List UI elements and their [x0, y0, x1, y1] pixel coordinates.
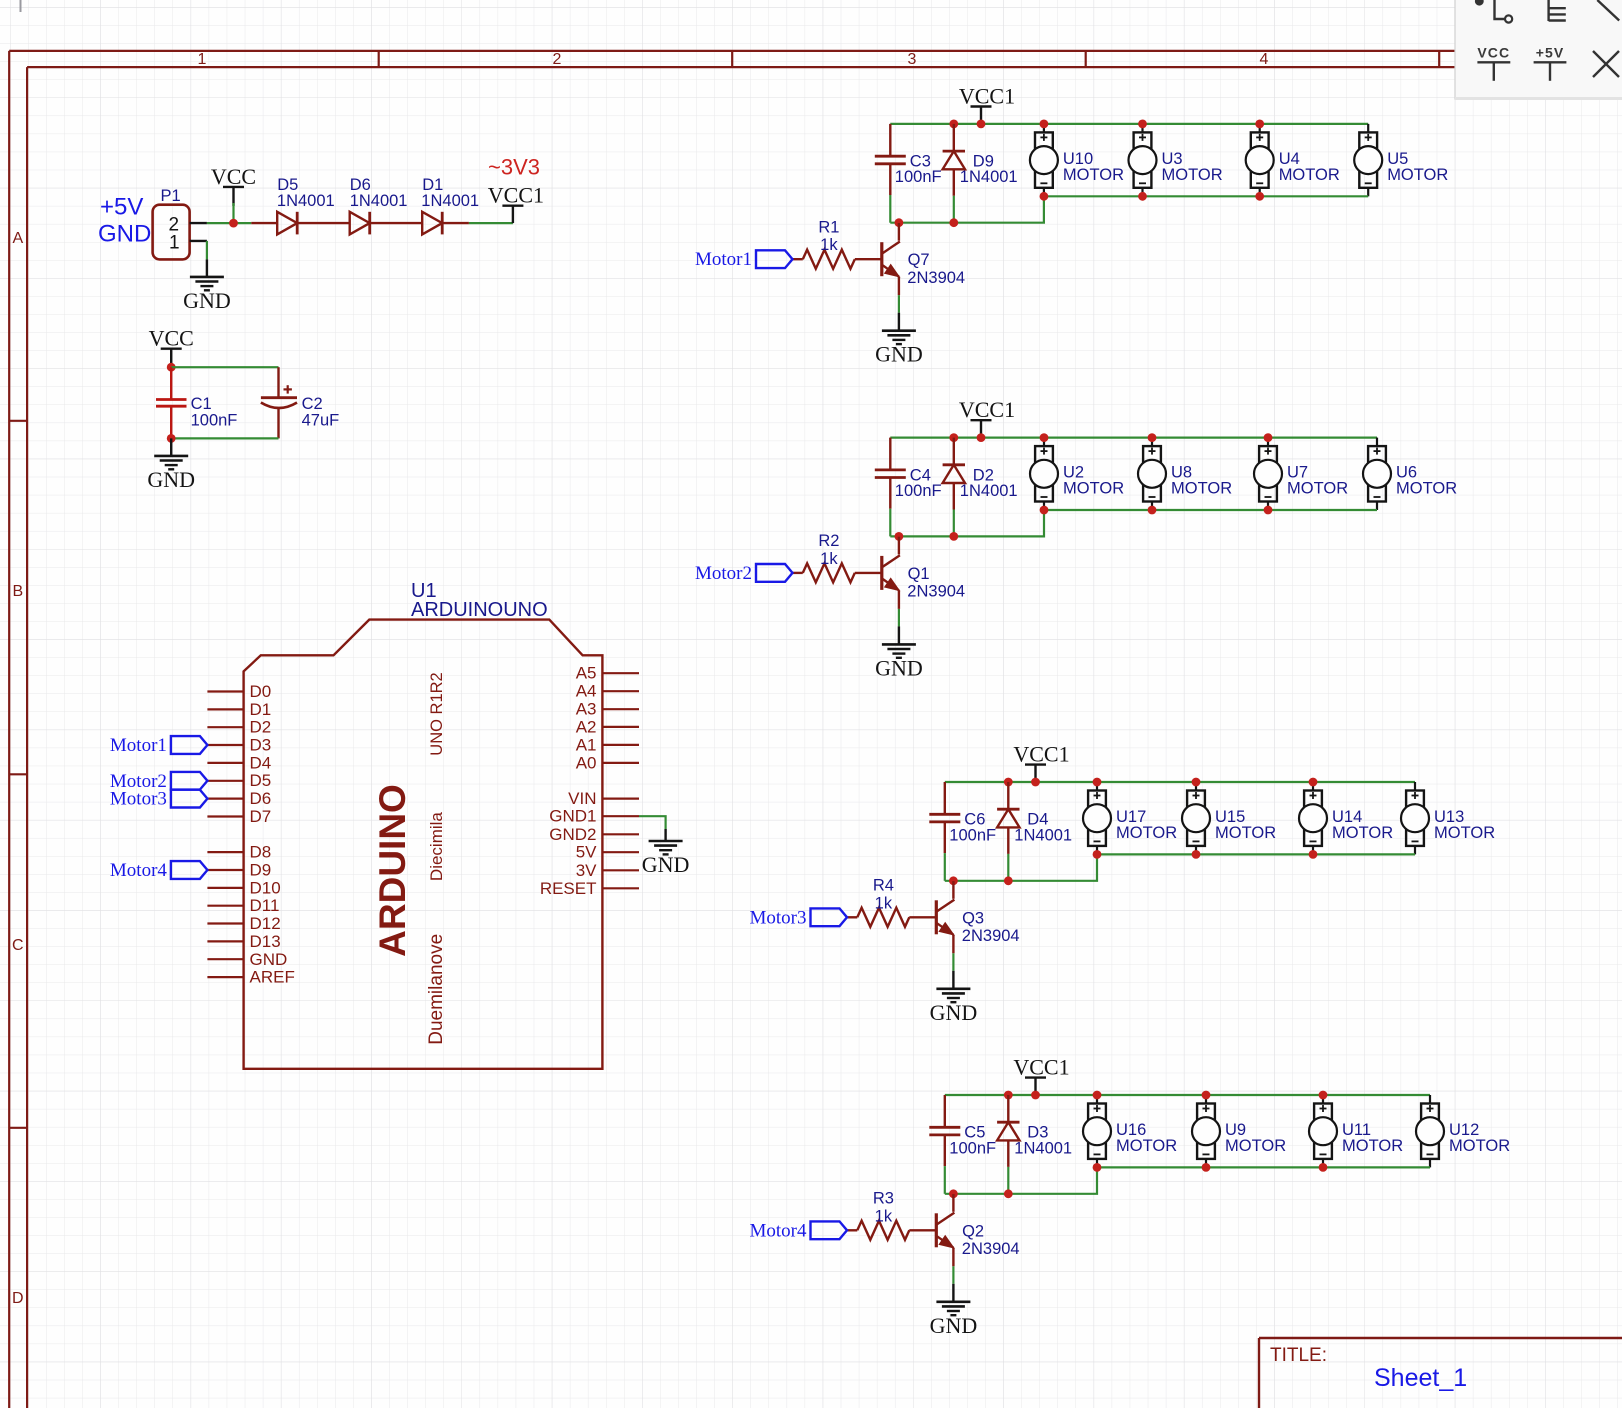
transistor Q7 [882, 223, 965, 295]
svg-text:GND1: GND1 [549, 807, 596, 826]
pin AREF [207, 968, 294, 987]
svg-text:Motor3: Motor3 [110, 789, 167, 810]
pin VIN [568, 789, 639, 808]
svg-text:MOTOR: MOTOR [1449, 1137, 1510, 1155]
svg-text:MOTOR: MOTOR [1387, 166, 1448, 184]
svg-text:2N3904: 2N3904 [907, 583, 965, 601]
motor U9 [1192, 1095, 1286, 1167]
svg-text:VCC: VCC [1477, 45, 1510, 61]
capacitor C5 [929, 1095, 996, 1194]
svg-text:RESET: RESET [540, 879, 597, 898]
svg-text:1N4001: 1N4001 [350, 192, 408, 210]
svg-text:1k: 1k [820, 236, 838, 254]
svg-text:Duemilanove: Duemilanove [426, 934, 447, 1045]
svg-text:MOTOR: MOTOR [1215, 824, 1276, 842]
pin 3V [576, 861, 639, 880]
motor U17 [1083, 782, 1177, 854]
junction [1319, 1091, 1328, 1100]
svg-text:A5: A5 [576, 664, 597, 683]
svg-text:D6: D6 [250, 789, 272, 808]
junction [167, 363, 176, 372]
svg-text:A4: A4 [576, 682, 597, 701]
connector P1 [153, 187, 207, 259]
pin D7 [207, 807, 271, 826]
pin A5 [576, 664, 639, 683]
svg-text:VCC1: VCC1 [1013, 1055, 1069, 1080]
net port Motor2 [695, 563, 793, 584]
capacitor C1 [156, 367, 237, 438]
svg-text:GND: GND [642, 852, 690, 877]
wire motor return rail [1097, 1166, 1430, 1168]
svg-text:D: D [12, 1290, 24, 1307]
frame row labels [12, 230, 24, 1307]
svg-text:2N3904: 2N3904 [962, 1240, 1020, 1258]
ground [147, 438, 195, 492]
svg-text:100nF: 100nF [895, 168, 942, 186]
junction [1148, 506, 1157, 515]
power flag VCC [211, 164, 256, 206]
pin A2 [576, 717, 639, 736]
pin A3 [576, 700, 639, 719]
svg-text:MOTOR: MOTOR [1396, 480, 1457, 498]
wire to VCC1 [469, 222, 513, 224]
junction [949, 120, 958, 129]
pin D6 [207, 789, 271, 808]
svg-text:VIN: VIN [568, 789, 596, 808]
toolbar icon bus entry [1549, 0, 1566, 21]
svg-text:1k: 1k [875, 894, 893, 912]
wire emitter to ground [952, 1266, 954, 1284]
svg-text:R3: R3 [873, 1190, 894, 1208]
diode D9 [943, 124, 1018, 223]
pin D1 [207, 700, 271, 719]
motor U10 [1030, 124, 1124, 196]
ground [930, 971, 978, 1025]
resistor R4 [847, 877, 936, 927]
svg-text:VCC1: VCC1 [959, 84, 1015, 109]
title block [1259, 1338, 1622, 1408]
junction [1255, 192, 1264, 201]
pin D10 [207, 878, 280, 897]
toolbar icon net port [1475, 0, 1512, 23]
diode D5 [251, 176, 334, 235]
svg-text:D9: D9 [250, 861, 272, 880]
svg-text:MOTOR: MOTOR [1063, 166, 1124, 184]
power flag VCC1 [959, 397, 1015, 437]
svg-text:MOTOR: MOTOR [1332, 824, 1393, 842]
net port Motor4 [750, 1220, 848, 1241]
motor U7 [1254, 438, 1348, 510]
wire riser [890, 196, 1044, 222]
svg-text:MOTOR: MOTOR [1434, 824, 1495, 842]
wire VCC1 bus (Motor3 block) [945, 781, 1415, 783]
ground [183, 259, 231, 313]
svg-text:3V: 3V [576, 861, 597, 880]
power flag VCC1 [1013, 742, 1069, 782]
svg-text:GND: GND [183, 288, 231, 313]
svg-text:A2: A2 [576, 717, 597, 736]
svg-text:MOTOR: MOTOR [1225, 1137, 1286, 1155]
junction [1093, 1091, 1102, 1100]
wire bottom [171, 437, 278, 439]
power flag VCC1 [959, 84, 1015, 124]
junction [1255, 120, 1264, 129]
power flag VCC [149, 326, 194, 364]
wire P1 pin1 to ground [206, 241, 208, 260]
diode D1 [369, 176, 479, 235]
pin RESET [540, 879, 639, 898]
junction [1040, 506, 1049, 515]
net port Motor2 [110, 771, 208, 792]
motor U13 [1401, 782, 1495, 854]
svg-text:GND: GND [930, 1000, 978, 1025]
svg-text:+5V: +5V [100, 194, 143, 221]
svg-text:D12: D12 [250, 914, 281, 933]
svg-text:3: 3 [908, 51, 917, 68]
junction [1040, 192, 1049, 201]
svg-text:MOTOR: MOTOR [1342, 1137, 1403, 1155]
svg-text:Motor4: Motor4 [750, 1220, 808, 1241]
wire P1 pin2 to node [207, 222, 251, 224]
junction [1093, 1163, 1102, 1172]
transistor Q1 [882, 537, 965, 609]
svg-text:1N4001: 1N4001 [960, 482, 1018, 500]
ground [642, 829, 690, 877]
svg-text:100nF: 100nF [895, 482, 942, 500]
svg-text:1N4001: 1N4001 [960, 168, 1018, 186]
svg-text:MOTOR: MOTOR [1116, 824, 1177, 842]
junction [949, 1189, 958, 1198]
diode D2 [943, 438, 1018, 537]
junction [1004, 1189, 1013, 1198]
svg-text:5V: 5V [576, 843, 597, 862]
pin 5V [576, 843, 639, 862]
wire VCC1 bus (Motor2 block) [890, 437, 1377, 439]
svg-text:MOTOR: MOTOR [1162, 166, 1223, 184]
svg-text:MOTOR: MOTOR [1279, 166, 1340, 184]
svg-text:1N4001: 1N4001 [1014, 826, 1072, 844]
frame column labels [198, 51, 1269, 68]
junction [167, 434, 176, 443]
svg-text:A: A [12, 230, 23, 247]
svg-text:Q3: Q3 [962, 909, 984, 927]
junction [1138, 192, 1147, 201]
svg-text:Q1: Q1 [908, 565, 930, 583]
wire VCC node [171, 366, 278, 368]
pin D5 [207, 771, 271, 790]
pin A1 [576, 735, 639, 754]
pin D8 [207, 843, 271, 862]
svg-text:100nF: 100nF [949, 826, 996, 844]
svg-text:GND: GND [250, 950, 288, 969]
motor U16 [1083, 1095, 1177, 1167]
junction [949, 876, 958, 885]
junction [1192, 778, 1201, 787]
wire riser [945, 854, 1097, 880]
svg-text:GND: GND [875, 655, 923, 680]
wire motor return rail [1097, 853, 1415, 855]
svg-text:D5: D5 [250, 771, 272, 790]
capacitor C4 [875, 438, 942, 537]
toolbar icon close [1593, 51, 1619, 77]
junction [1031, 1091, 1040, 1100]
wire GND1 to ground [639, 816, 666, 829]
labels +5V GND [98, 194, 151, 248]
junction [1093, 850, 1102, 859]
pin A4 [576, 682, 639, 701]
svg-text:VCC1: VCC1 [1013, 742, 1069, 767]
svg-text:Diecimila: Diecimila [427, 812, 446, 882]
svg-text:Sheet_1: Sheet_1 [1374, 1364, 1467, 1392]
junction [895, 532, 904, 541]
wire emitter to ground [898, 609, 900, 627]
junction [1319, 1163, 1328, 1172]
capacitor C6 [929, 782, 996, 881]
junction [1004, 876, 1013, 885]
wire emitter to ground [952, 953, 954, 971]
net port Motor3 [750, 907, 848, 928]
pin D4 [207, 753, 271, 772]
resistor R3 [847, 1190, 936, 1240]
junction [1309, 850, 1318, 859]
svg-text:GND: GND [147, 467, 195, 492]
capacitor C3 [875, 124, 942, 223]
svg-text:47uF: 47uF [302, 412, 340, 430]
toolbar panel [1455, 0, 1622, 100]
svg-text:Motor1: Motor1 [110, 735, 167, 756]
motor U4 [1246, 124, 1340, 196]
svg-text:D2: D2 [250, 718, 272, 737]
svg-text:+5V: +5V [1536, 45, 1565, 61]
wire VCC1 bus (Motor4 block) [945, 1094, 1430, 1096]
diode D3 [997, 1095, 1072, 1194]
svg-text:Motor2: Motor2 [695, 563, 752, 584]
svg-text:R1: R1 [818, 219, 839, 237]
net port Motor4 [110, 860, 208, 881]
svg-text:A3: A3 [576, 700, 597, 719]
svg-text:2N3904: 2N3904 [962, 927, 1020, 945]
pin D0 [207, 682, 271, 701]
svg-text:C2: C2 [302, 395, 323, 413]
svg-text:VCC1: VCC1 [959, 397, 1015, 422]
svg-text:MOTOR: MOTOR [1116, 1137, 1177, 1155]
pin D9 [207, 861, 271, 880]
power flag VCC1 [488, 183, 544, 223]
svg-text:VCC: VCC [211, 164, 256, 189]
ruler mark [20, 0, 22, 12]
svg-text:R4: R4 [873, 877, 894, 895]
svg-text:GND: GND [98, 221, 151, 248]
junction [1202, 1091, 1211, 1100]
motor U8 [1138, 438, 1232, 510]
junction [1148, 433, 1157, 442]
svg-text:Motor4: Motor4 [110, 860, 168, 881]
svg-text:1: 1 [198, 51, 207, 68]
svg-text:Q2: Q2 [962, 1222, 984, 1240]
pin D12 [207, 914, 280, 933]
svg-text:1: 1 [169, 232, 180, 253]
toolbar icon +5V [1534, 45, 1567, 81]
svg-text:1k: 1k [820, 550, 838, 568]
svg-text:2: 2 [553, 51, 562, 68]
resistor R2 [793, 532, 882, 582]
svg-text:100nF: 100nF [949, 1139, 996, 1157]
svg-text:D4: D4 [250, 753, 272, 772]
motor U2 [1030, 438, 1124, 510]
svg-text:D13: D13 [250, 932, 281, 951]
junction [1264, 506, 1273, 515]
toolbar icon line [1597, 0, 1619, 21]
power flag VCC1 [1013, 1055, 1069, 1095]
svg-text:D11: D11 [250, 896, 280, 915]
ground [875, 626, 923, 680]
motor U14 [1299, 782, 1393, 854]
net port Motor1 [110, 735, 208, 756]
svg-text:ARDUINOUNO: ARDUINOUNO [411, 599, 548, 621]
svg-text:C: C [12, 937, 24, 954]
junction [1004, 1091, 1013, 1100]
svg-text:GND2: GND2 [549, 825, 596, 844]
svg-text:A1: A1 [576, 735, 597, 754]
svg-text:R2: R2 [818, 532, 839, 550]
svg-text:1N4001: 1N4001 [421, 192, 479, 210]
svg-text:MOTOR: MOTOR [1171, 480, 1232, 498]
junction [1192, 850, 1201, 859]
motor U11 [1309, 1095, 1403, 1167]
wire riser [890, 510, 1044, 536]
pin D13 [207, 932, 280, 951]
ground [875, 313, 923, 367]
svg-text:VCC1: VCC1 [488, 183, 544, 208]
pin GND [207, 950, 287, 969]
junction [229, 219, 238, 228]
svg-text:100nF: 100nF [191, 412, 238, 430]
svg-text:D7: D7 [250, 807, 272, 826]
junction [1040, 433, 1049, 442]
arduino sub labels [426, 672, 447, 1044]
junction [949, 532, 958, 541]
pin A0 [576, 753, 639, 772]
junction [1040, 120, 1049, 129]
svg-text:1k: 1k [875, 1207, 893, 1225]
svg-text:D8: D8 [250, 843, 272, 862]
svg-text:ARDUINO: ARDUINO [372, 784, 413, 957]
svg-text:Q7: Q7 [908, 251, 930, 269]
wire motor return rail [1044, 509, 1377, 511]
net port Motor3 [110, 789, 208, 810]
pin D2 [207, 718, 271, 737]
junction [895, 218, 904, 227]
junction [1202, 1163, 1211, 1172]
junction [1093, 778, 1102, 787]
wire VCC1 bus (Motor1 block) [890, 123, 1368, 125]
junction [1004, 778, 1013, 787]
svg-text:Motor3: Motor3 [750, 907, 807, 928]
wire motor return rail [1044, 195, 1368, 197]
svg-text:GND: GND [875, 342, 923, 367]
ground [930, 1284, 978, 1338]
pin D3 [207, 736, 271, 755]
svg-text:MOTOR: MOTOR [1063, 480, 1124, 498]
svg-text:1N4001: 1N4001 [277, 192, 335, 210]
svg-text:4: 4 [1260, 51, 1269, 68]
svg-text:GND: GND [930, 1313, 978, 1338]
resistor R1 [793, 219, 882, 269]
svg-text:TITLE:: TITLE: [1270, 1345, 1327, 1366]
motor U3 [1129, 124, 1223, 196]
svg-text:VCC: VCC [149, 326, 194, 351]
svg-text:D1: D1 [250, 700, 272, 719]
net port Motor1 [695, 249, 793, 270]
transistor Q2 [936, 1194, 1019, 1266]
junction [977, 120, 986, 129]
svg-text:UNO R1R2: UNO R1R2 [428, 672, 446, 755]
svg-text:MOTOR: MOTOR [1287, 480, 1348, 498]
motor U6 [1363, 438, 1457, 510]
junction [949, 433, 958, 442]
pin D11 [207, 896, 279, 915]
junction [1309, 778, 1318, 787]
svg-text:D0: D0 [250, 682, 272, 701]
capacitor C2 [261, 367, 339, 438]
junction [977, 433, 986, 442]
junction [1264, 433, 1273, 442]
pin GND1 [549, 807, 639, 826]
transistor Q3 [936, 881, 1019, 953]
svg-text:Motor1: Motor1 [695, 249, 752, 270]
junction [949, 218, 958, 227]
svg-text:AREF: AREF [250, 968, 295, 987]
junction [1138, 120, 1147, 129]
svg-text:C1: C1 [191, 395, 212, 413]
pin GND2 [549, 825, 639, 844]
diode D6 [297, 176, 407, 235]
arduino U1 body [244, 580, 603, 1069]
motor U15 [1182, 782, 1276, 854]
svg-text:~3V3: ~3V3 [488, 155, 540, 180]
motor U5 [1354, 124, 1448, 196]
svg-text:P1: P1 [161, 187, 181, 205]
svg-text:2N3904: 2N3904 [907, 269, 965, 287]
diode D4 [997, 782, 1072, 881]
toolbar icon VCC [1477, 45, 1510, 81]
svg-text:1N4001: 1N4001 [1014, 1139, 1072, 1157]
wire riser [945, 1167, 1097, 1193]
wire emitter to ground [898, 295, 900, 313]
svg-text:D10: D10 [250, 878, 281, 897]
svg-text:B: B [12, 583, 23, 600]
motor U12 [1416, 1095, 1510, 1167]
svg-text:A0: A0 [576, 753, 597, 772]
junction [1031, 778, 1040, 787]
svg-text:D3: D3 [250, 736, 272, 755]
